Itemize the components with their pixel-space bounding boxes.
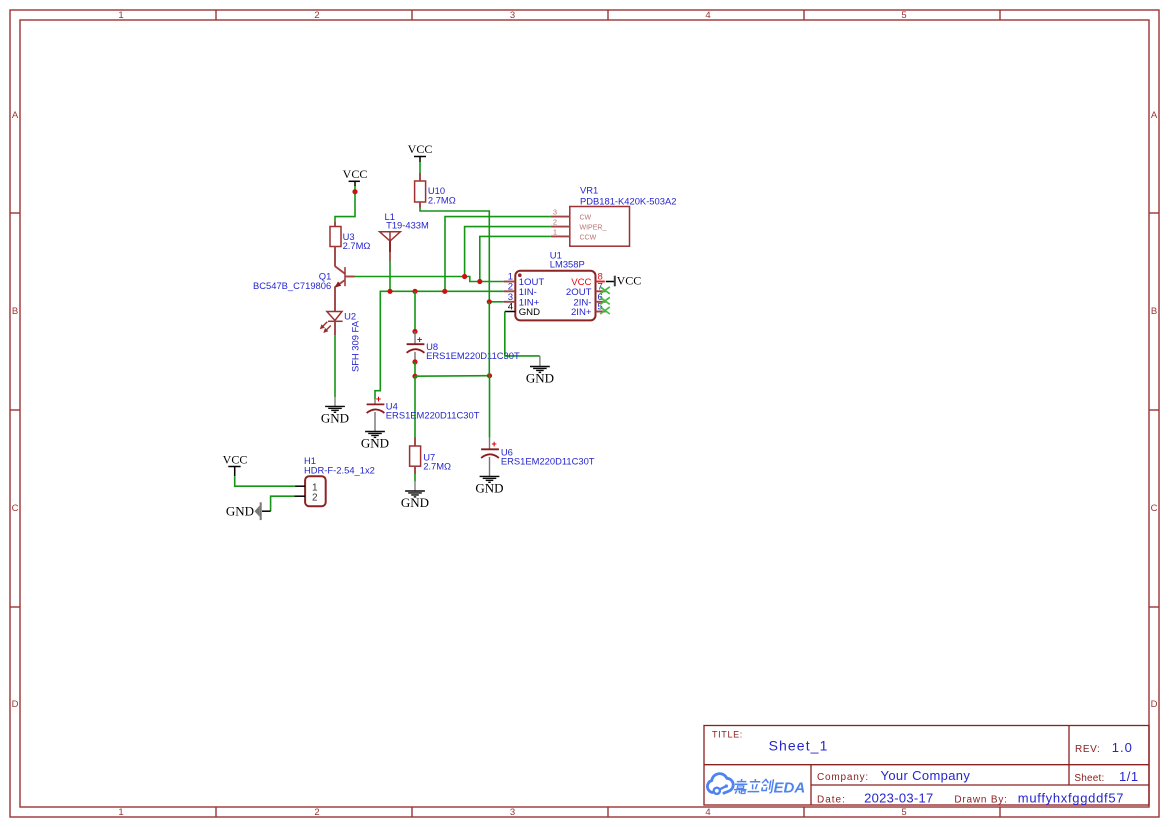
resistor U10 xyxy=(415,173,456,208)
svg-text:4: 4 xyxy=(705,10,710,21)
wire 1IN+ net xyxy=(489,301,503,303)
svg-text:EDA: EDA xyxy=(774,780,806,797)
svg-text:CW: CW xyxy=(580,214,592,221)
svg-text:C: C xyxy=(12,503,19,514)
svg-text:B: B xyxy=(12,306,18,317)
ground GND (under U4) xyxy=(361,432,389,451)
wire Q1 base net xyxy=(355,277,504,282)
svg-text:ERS1EM220D11C30T: ERS1EM220D11C30T xyxy=(426,350,520,361)
svg-text:PDB181-K420K-503A2: PDB181-K420K-503A2 xyxy=(580,195,676,206)
junction dot VCC net xyxy=(352,189,357,194)
svg-text:Sheet_1: Sheet_1 xyxy=(769,738,829,754)
junction dot U8 top net xyxy=(412,289,417,294)
capacitor U4 (polarized) xyxy=(367,394,480,432)
svg-text:Your Company: Your Company xyxy=(881,768,971,783)
transistor Q1 xyxy=(253,266,355,311)
no-connect X pin7 xyxy=(600,287,610,294)
ground GND (under U2) xyxy=(321,397,349,426)
ground GND (under U6) xyxy=(475,476,503,495)
svg-text:2.7MΩ: 2.7MΩ xyxy=(423,460,451,471)
logo JLC EDA cloud icon xyxy=(707,774,733,794)
svg-text:HDR-F-2.54_1x2: HDR-F-2.54_1x2 xyxy=(304,465,375,476)
junction dot CW net xyxy=(442,289,447,294)
frame column labels bottom xyxy=(118,807,906,818)
wire U2 to GND xyxy=(334,335,336,397)
svg-text:TITLE:: TITLE: xyxy=(712,730,743,740)
junction dot antenna xyxy=(387,289,392,294)
svg-text:+: + xyxy=(417,335,422,345)
wire VCC to U3 xyxy=(335,186,355,222)
svg-text:GND: GND xyxy=(475,481,503,496)
svg-text:BC547B_C719806: BC547B_C719806 xyxy=(253,280,331,291)
logo hanzi JiaLiChuang (drawn strokes) xyxy=(733,779,773,794)
junction dot branch left xyxy=(412,374,417,379)
op-amp U1 LM358P xyxy=(504,249,606,320)
svg-text:7: 7 xyxy=(598,281,603,292)
power flag VCC (U1 pin 8) xyxy=(606,273,641,287)
wire U10 to pin3 vertical xyxy=(420,208,489,302)
junction dot 1OUT/ccw xyxy=(477,279,482,284)
svg-text:GND: GND xyxy=(519,307,540,318)
wire VCC to H1 pin1 xyxy=(235,476,295,486)
svg-text:2023-03-17: 2023-03-17 xyxy=(864,791,934,806)
wire U7 bottom xyxy=(414,474,416,481)
svg-text:T19-433M: T19-433M xyxy=(386,220,429,231)
svg-text:1: 1 xyxy=(553,227,557,236)
header H1 xyxy=(295,455,375,506)
svg-text:VCC: VCC xyxy=(408,142,433,156)
capacitor U8 (polarized) xyxy=(407,332,520,362)
svg-text:Date:: Date: xyxy=(817,795,846,806)
capacitor U6 (polarized) xyxy=(481,438,595,477)
svg-text:A: A xyxy=(12,110,19,121)
wire U6 top xyxy=(489,376,491,438)
svg-text:Drawn By:: Drawn By: xyxy=(954,795,1007,806)
wire VR1 pin3 CW xyxy=(445,217,551,292)
svg-text:REV:: REV: xyxy=(1075,744,1100,755)
logo EDA text xyxy=(774,780,806,797)
wire VCC to U10 xyxy=(419,162,421,173)
no-connect X pin6 xyxy=(600,297,610,304)
junction dot base/wiper xyxy=(462,274,467,279)
svg-text:GND: GND xyxy=(401,495,429,510)
svg-text:5: 5 xyxy=(901,10,906,21)
svg-text:2.7MΩ: 2.7MΩ xyxy=(428,195,456,206)
svg-text:2: 2 xyxy=(314,807,319,818)
svg-text:3: 3 xyxy=(553,208,557,217)
svg-text:1.0: 1.0 xyxy=(1112,740,1133,755)
resistor U7 xyxy=(410,438,451,475)
junction dot U8 bottom pin xyxy=(412,359,417,364)
wire H1 pin2 to GND flag xyxy=(271,496,295,511)
junction dot U8 top pin xyxy=(412,329,417,334)
photodiode U2 xyxy=(320,311,361,373)
wire U7 top xyxy=(414,376,416,437)
wire pin3 vertical lower xyxy=(488,302,490,376)
svg-text:4: 4 xyxy=(508,302,513,313)
potentiometer VR1 xyxy=(551,184,677,246)
frame row labels left xyxy=(12,110,19,710)
svg-text:5: 5 xyxy=(901,807,906,818)
junction dot 1IN+ net xyxy=(487,299,492,304)
svg-text:CCW: CCW xyxy=(580,234,597,241)
svg-text:VCC: VCC xyxy=(223,453,248,467)
svg-text:U2: U2 xyxy=(344,311,356,322)
wire L1 to net xyxy=(389,261,391,291)
wire U8 bottom to branch xyxy=(414,362,416,376)
ground GND (U1 pin4) xyxy=(526,356,554,386)
svg-text:2IN+: 2IN+ xyxy=(571,307,592,318)
svg-text:ERS1EM220D11C30T: ERS1EM220D11C30T xyxy=(501,455,595,466)
ground GND (under U7) xyxy=(401,481,429,510)
wire U8 top xyxy=(414,291,416,331)
junction dot branch right xyxy=(487,373,492,378)
svg-text:VCC: VCC xyxy=(343,167,368,181)
svg-text:LM358P: LM358P xyxy=(550,258,585,269)
ground flag GND (H1) xyxy=(226,502,271,520)
svg-text:GND: GND xyxy=(526,371,554,386)
no-connect X pin5 xyxy=(600,307,610,314)
svg-text:2: 2 xyxy=(312,493,318,504)
svg-text:2OUT: 2OUT xyxy=(566,287,592,298)
svg-text:A: A xyxy=(1151,110,1158,121)
svg-text:2: 2 xyxy=(508,281,513,292)
svg-text:1: 1 xyxy=(118,807,123,818)
svg-text:VCC: VCC xyxy=(617,273,642,287)
frame row ticks xyxy=(10,213,1159,607)
svg-text:2: 2 xyxy=(314,10,319,21)
wire branch horizontal xyxy=(415,375,490,378)
svg-text:GND: GND xyxy=(321,411,349,426)
resistor U3 xyxy=(330,222,370,267)
svg-text:2: 2 xyxy=(553,218,557,227)
svg-text:Company:: Company: xyxy=(817,772,869,783)
svg-text:GND: GND xyxy=(361,436,389,451)
svg-text:ERS1EM220D11C30T: ERS1EM220D11C30T xyxy=(386,410,480,421)
power flag VCC (net VCC at U3 top) xyxy=(343,167,368,186)
svg-text:+: + xyxy=(376,394,381,404)
svg-text:1: 1 xyxy=(118,10,123,21)
title block outline xyxy=(704,726,1149,806)
title block labels xyxy=(712,730,1139,806)
svg-text:3: 3 xyxy=(510,807,515,818)
wire VR1 pin1 CCW xyxy=(480,236,551,281)
svg-text:1IN-: 1IN- xyxy=(519,287,537,298)
svg-text:SFH 309 FA: SFH 309 FA xyxy=(349,320,360,372)
svg-text:4: 4 xyxy=(705,807,710,818)
svg-text:C: C xyxy=(1151,503,1158,514)
power flag VCC (net VCC at U10 top) xyxy=(408,142,433,162)
frame column ticks xyxy=(216,10,1000,817)
svg-text:muffyhxfggddf57: muffyhxfggddf57 xyxy=(1018,791,1124,806)
svg-text:D: D xyxy=(1151,699,1158,710)
frame row labels right xyxy=(1151,110,1158,710)
power flag VCC (H1) xyxy=(223,453,248,477)
wire VR1 pin2 WIPER xyxy=(465,227,551,277)
antenna L1 xyxy=(380,211,429,261)
frame column labels top xyxy=(118,10,906,21)
svg-text:3: 3 xyxy=(510,10,515,21)
svg-text:GND: GND xyxy=(226,503,254,518)
svg-text:Sheet:: Sheet: xyxy=(1074,773,1104,784)
svg-text:VR1: VR1 xyxy=(580,184,598,195)
svg-text:2.7MΩ: 2.7MΩ xyxy=(343,240,371,251)
wire 1IN- net xyxy=(375,291,504,399)
svg-text:1/1: 1/1 xyxy=(1119,769,1139,784)
svg-text:D: D xyxy=(12,699,19,710)
svg-text:WIPER_: WIPER_ xyxy=(580,225,607,232)
svg-text:+: + xyxy=(492,439,497,449)
wire U1 pin4 to GND xyxy=(505,312,540,356)
svg-text:B: B xyxy=(1151,306,1157,317)
